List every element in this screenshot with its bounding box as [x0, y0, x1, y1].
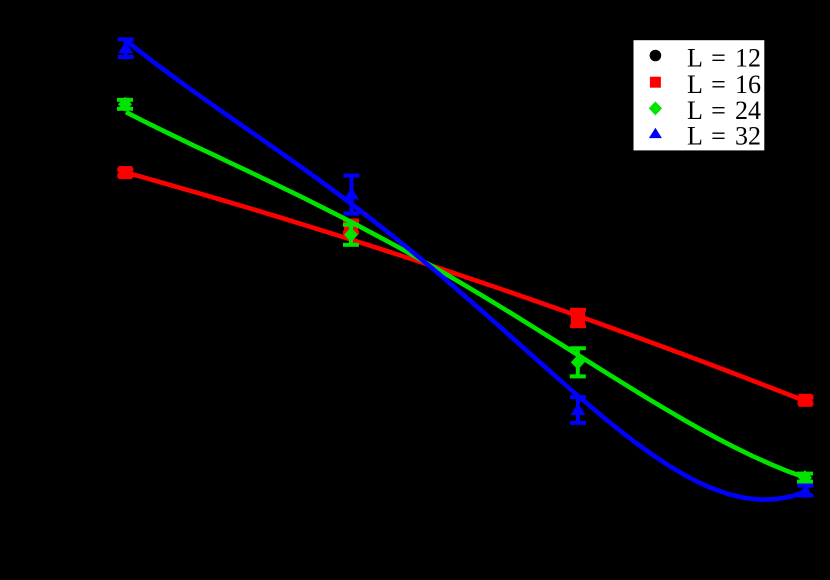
svg-text:L = 12: L = 12 — [687, 43, 761, 72]
legend marker blue triangle L=32 — [649, 128, 662, 138]
red square marker 2 with error bar — [349, 221, 353, 233]
blue triangle marker 3 with error bar — [576, 397, 580, 423]
curve green L=24 fit line — [126, 112, 805, 477]
blue triangle marker 2 with error bar — [350, 176, 354, 214]
green diamond marker 1 with error bar — [123, 100, 127, 109]
curve blue L=32 fit line — [125, 40, 807, 500]
blue triangle marker 1 with error bar — [124, 39, 128, 57]
legend marker green diamond L=24 — [649, 101, 662, 115]
green diamond marker 3 with error bar — [576, 348, 580, 376]
green diamond marker 4 with error bar — [803, 474, 807, 482]
curve red L=16 fit line — [125, 172, 806, 401]
green diamond marker 2 with error bar — [349, 225, 353, 245]
red square marker 4 with error bar — [804, 397, 808, 403]
legend marker red square L=16 — [650, 77, 661, 88]
svg-text:L = 32: L = 32 — [687, 122, 761, 151]
red square marker 3 with error bar — [576, 310, 580, 326]
legend marker black circle L=12 — [650, 50, 662, 62]
blue triangle marker 4 with error bar — [804, 486, 808, 496]
svg-text:L = 16: L = 16 — [687, 70, 761, 99]
legend box — [634, 40, 765, 150]
red square marker 1 with error bar — [123, 170, 127, 176]
